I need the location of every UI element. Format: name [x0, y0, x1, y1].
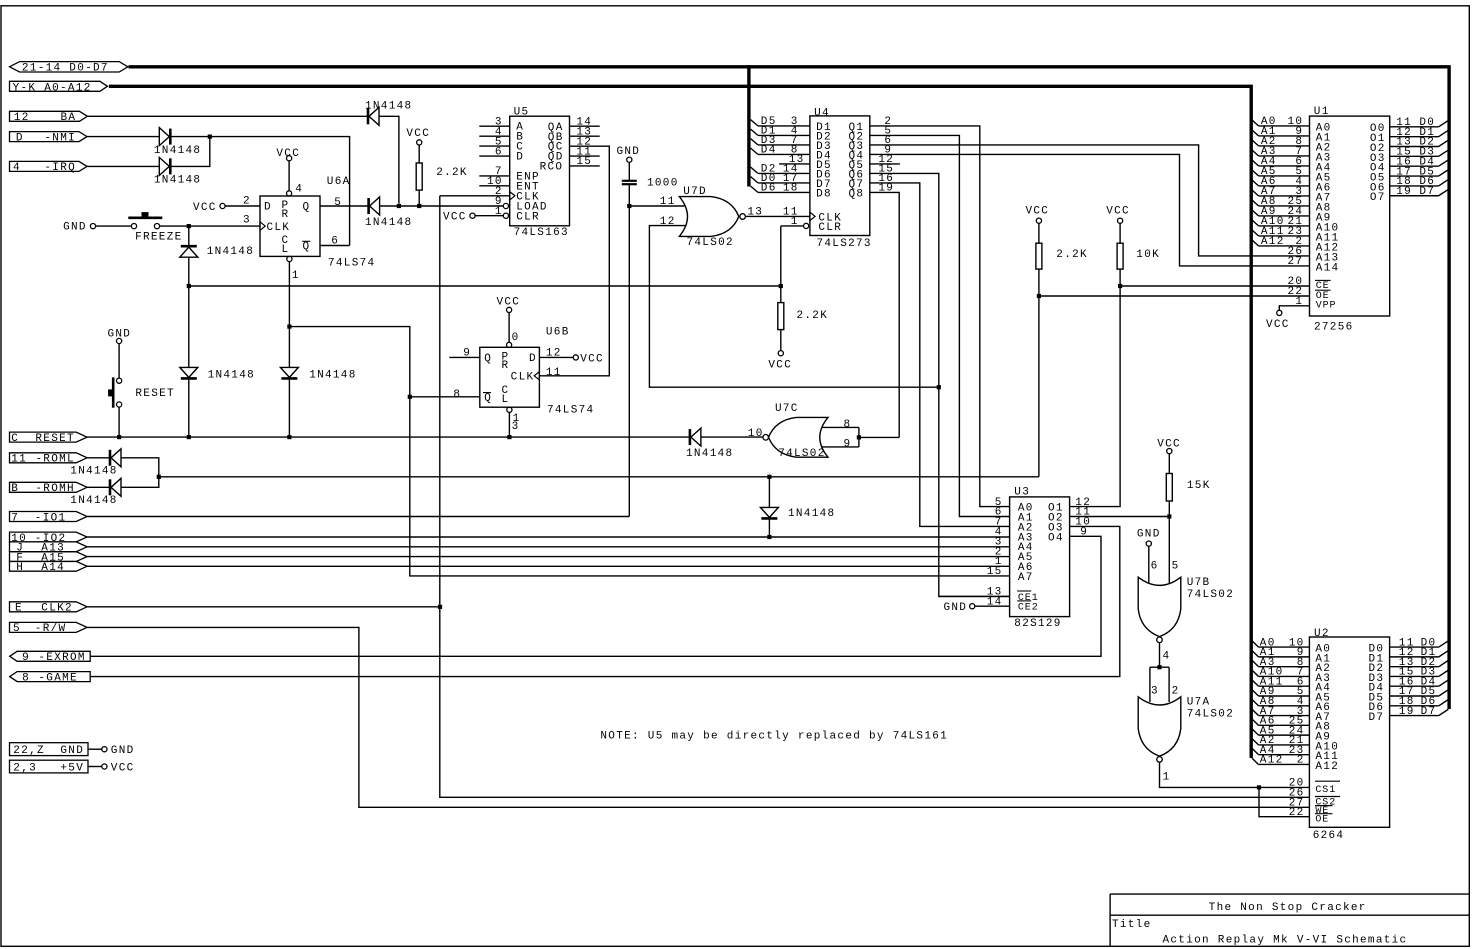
- svg-text:U7C: U7C: [775, 403, 799, 415]
- pin 5 stub (U5): [479, 145, 509, 147]
- wire: U7C inputs to Q8 vertical: [859, 436, 899, 438]
- wire: U4 CLR to pull-up: [780, 226, 782, 303]
- wire: -IRQ diode up to NMI junction: [170, 137, 210, 167]
- U2 inside labels: [1315, 644, 1384, 826]
- svg-text:A12: A12: [1261, 236, 1285, 248]
- wire: D bus branch to U4: [747, 65, 750, 186]
- diode D1 1N4148 (BA): [365, 101, 412, 126]
- connector J A13: [10, 542, 88, 555]
- svg-text:8: 8: [22, 672, 30, 684]
- wire: -ROMH diode to OR junction: [122, 477, 159, 488]
- svg-text:1: 1: [1163, 772, 1171, 784]
- U4 inside labels: [816, 122, 864, 234]
- pin 16 output D4 (U1): [1390, 156, 1449, 168]
- wire: -IRQ to diode: [87, 165, 159, 167]
- diode D3 1N4148 (-IRQ): [154, 157, 201, 186]
- ground terminal (U7B input 6): [1137, 529, 1161, 547]
- svg-text:10: 10: [748, 428, 764, 440]
- nor-gate U7D 74LS02: [660, 186, 763, 249]
- svg-text:74LS02: 74LS02: [778, 448, 825, 460]
- node: IO2 diode top junction: [767, 475, 771, 479]
- pin 3 stub (U5): [479, 125, 509, 127]
- ground terminal (RESET): [108, 328, 132, 343]
- wire: A15 to U3 A5: [87, 556, 1010, 558]
- node: U7C inputs junction: [857, 435, 861, 439]
- svg-text:CLK: CLK: [511, 371, 535, 383]
- pin 15 output D3 (U1): [1390, 147, 1449, 159]
- wire: diode to U7C output: [701, 436, 763, 438]
- svg-text:R: R: [282, 209, 290, 221]
- connector 9 -EXROM: [10, 651, 91, 664]
- connector H A14: [10, 561, 88, 574]
- switch FREEZE: [96, 212, 183, 243]
- diode D6 1N4148 (Q to LOAD): [365, 197, 412, 229]
- wire: BA diode to LOAD net: [380, 116, 399, 203]
- svg-text:22,Z: 22,Z: [13, 745, 45, 757]
- diode D11 1N4148 (to -IO2): [760, 507, 835, 520]
- wire: VCC to U6B pin 10: [508, 313, 510, 343]
- pin 9 wire (U4 Q4 to U1 A14): [870, 145, 1310, 266]
- pin 25 tap A8 (U1): [1252, 196, 1310, 208]
- diode D2 1N4148 (-NMI): [154, 128, 201, 157]
- svg-text:19: 19: [1396, 186, 1412, 198]
- svg-text:R: R: [502, 360, 510, 372]
- svg-text:GND: GND: [617, 146, 641, 158]
- counter U5 74LS163: [503, 107, 569, 239]
- svg-text:A14: A14: [1316, 262, 1340, 274]
- svg-text:11: 11: [660, 196, 676, 208]
- pin 6 tap A11 (U2): [1252, 676, 1309, 688]
- svg-text:5: 5: [1172, 560, 1180, 572]
- pin 18 output D6 (U1): [1390, 176, 1449, 188]
- node: Q6 junction: [937, 385, 941, 389]
- wire: U7A output to U2 CS1: [1160, 762, 1310, 787]
- pin 13 output D2 (U1): [1390, 137, 1449, 149]
- svg-text:1N4148: 1N4148: [309, 370, 356, 382]
- svg-text:1N4148: 1N4148: [365, 101, 412, 113]
- pin 4 tap A8 (U2): [1252, 696, 1309, 708]
- wire: RESET line: [87, 436, 689, 438]
- wire: -EXROM from U3 O4: [90, 536, 1101, 656]
- svg-text:-IO1: -IO1: [35, 512, 67, 524]
- svg-text:RESET: RESET: [35, 433, 75, 445]
- pin 14 wire (U3 CE2 to GND): [944, 602, 1010, 614]
- svg-text:6: 6: [495, 146, 503, 158]
- connector C RESET: [10, 432, 88, 445]
- pin 7 stub (U5): [479, 175, 509, 177]
- node: OE junction: [1037, 294, 1041, 298]
- pin 13 stub (U5): [570, 135, 600, 137]
- svg-text:8: 8: [844, 419, 852, 431]
- svg-text:2.2K: 2.2K: [436, 167, 468, 179]
- svg-text:9: 9: [463, 348, 471, 360]
- svg-text:Action Replay Mk V-VI Schemati: Action Replay Mk V-VI Schematic: [1163, 935, 1408, 947]
- svg-text:-ROMH: -ROMH: [35, 483, 75, 495]
- node: U7A input junction: [1157, 665, 1161, 669]
- svg-text:6: 6: [1151, 560, 1159, 572]
- wire: CLR net to U3 A7: [289, 327, 1009, 576]
- svg-text:B: B: [11, 483, 19, 495]
- pin 11 stub (U5): [570, 155, 600, 157]
- pin 2 wire (U5 CLK from CLK2): [440, 195, 510, 197]
- pin 17 output D5 (U1): [1390, 166, 1449, 178]
- node: reset junctions: [117, 435, 121, 439]
- svg-text:D6: D6: [761, 183, 777, 195]
- pin 10 tap A0 (U2): [1252, 637, 1309, 649]
- wire: A13 to U3 A4: [87, 546, 1010, 548]
- svg-text:+5V: +5V: [60, 762, 84, 774]
- pin 23 tap A4 (U2): [1252, 745, 1309, 757]
- wire: U6A CLR down: [288, 262, 290, 327]
- op-amp U6B 74LS74 flip-flop: [480, 327, 595, 417]
- wire: -ROML to diode: [87, 457, 109, 459]
- svg-text:9: 9: [844, 438, 852, 450]
- svg-text:12: 12: [14, 112, 30, 124]
- resistor R2 2.2K (CLR pull-up): [768, 303, 828, 372]
- wire: -ROMH to diode: [87, 486, 109, 488]
- svg-text:RCO: RCO: [540, 162, 564, 174]
- pin 4 tap A6 (U1): [1252, 176, 1310, 188]
- svg-text:1N4148: 1N4148: [70, 465, 117, 477]
- svg-text:D7: D7: [1419, 186, 1435, 198]
- wire: VCC to U6A pin4: [288, 161, 290, 191]
- pin 24 tap A9 (U1): [1252, 206, 1310, 218]
- diode D4 1N4148 (freeze pulse): [180, 246, 254, 258]
- wire: -ROML diode to OR junction: [122, 458, 159, 477]
- pin 12 output D1 (U1): [1390, 127, 1449, 139]
- wire: diode to RESET line: [288, 378, 290, 437]
- pin 2 tap A12 (U1): [1252, 236, 1310, 248]
- svg-text:15K: 15K: [1187, 480, 1211, 492]
- pin 7 tap D3 (U4): [751, 135, 810, 147]
- pin 10 stub (U5): [479, 185, 509, 187]
- wire: U6A Q to diode: [320, 205, 368, 207]
- wire: C1 to -IO1 vertical: [628, 185, 630, 516]
- wire: A bus thick: [109, 86, 1251, 758]
- connector E CLK2: [10, 602, 88, 615]
- svg-text:9: 9: [22, 652, 30, 664]
- wire: U6B Q pin 8: [410, 396, 480, 398]
- wire: down to reset diode: [188, 286, 190, 367]
- wire: O2 to U7B input 5: [1168, 517, 1170, 584]
- wire: -NMI to diode: [87, 136, 159, 138]
- svg-text:21-14 D0-D7: 21-14 D0-D7: [22, 62, 109, 74]
- diode D10 1N4148 (-ROMH): [70, 478, 121, 507]
- pin 12 wire (U6B D to VCC): [539, 348, 604, 366]
- svg-text:O4: O4: [1048, 532, 1064, 544]
- pin 12 stub (U4 Q5): [870, 154, 900, 166]
- svg-text:A7: A7: [1018, 572, 1034, 584]
- pin 7 tap A10 (U2): [1252, 667, 1309, 679]
- pin 10 tap A0 (U1): [1252, 116, 1310, 128]
- node: NMI/IRQ junction: [208, 135, 212, 139]
- pin 2 tap A12 (U2): [1252, 755, 1309, 767]
- svg-text:3: 3: [1151, 686, 1159, 698]
- svg-text:8: 8: [453, 389, 461, 401]
- title block: [1110, 894, 1469, 947]
- svg-text:6264: 6264: [1313, 830, 1345, 842]
- connector Y-K A0-A12 (address bus): [10, 81, 108, 94]
- svg-text:Q: Q: [484, 353, 492, 365]
- pin 21 tap A2 (U2): [1252, 735, 1309, 747]
- svg-text:GND: GND: [1137, 529, 1161, 541]
- svg-text:D4: D4: [761, 145, 777, 157]
- pin 19 output D7 (U1): [1390, 186, 1449, 198]
- svg-text:VCC: VCC: [1106, 206, 1130, 218]
- svg-text:D: D: [516, 152, 524, 164]
- svg-text:74LS163: 74LS163: [514, 227, 569, 239]
- svg-text:1N4148: 1N4148: [154, 175, 201, 187]
- svg-text:5: 5: [334, 197, 342, 209]
- pin 12 wire (U3 O1 to pull-up and U1 CE): [1070, 269, 1121, 507]
- svg-text:BA: BA: [61, 112, 77, 124]
- wire: junction down to diode: [188, 226, 190, 246]
- svg-text:D: D: [16, 132, 24, 144]
- svg-text:The Non Stop Cracker: The Non Stop Cracker: [1209, 902, 1367, 914]
- U1 inside labels: [1315, 122, 1386, 311]
- pin 15 output D3 (U2): [1390, 667, 1449, 679]
- wire: U7C input 8: [822, 426, 859, 428]
- pin 14 stub (U5): [570, 125, 600, 127]
- pin 6 stub (U5): [479, 155, 509, 157]
- connector D -NMI: [10, 132, 88, 145]
- wire: -NMI diode to U6A Q̅ vertical: [170, 137, 349, 246]
- svg-text:0: 0: [512, 332, 520, 344]
- svg-text:1: 1: [495, 206, 503, 218]
- svg-text:1N4148: 1N4148: [208, 370, 255, 382]
- svg-text:VCC: VCC: [497, 296, 521, 308]
- svg-text:NOTE: U5 may be directly repla: NOTE: U5 may be directly replaced by 74L…: [600, 730, 948, 742]
- svg-text:U7D: U7D: [683, 186, 707, 198]
- svg-text:12: 12: [546, 348, 562, 360]
- node: BA junction on LOAD net: [397, 204, 401, 208]
- svg-text:2: 2: [1172, 686, 1180, 698]
- svg-text:2: 2: [1297, 755, 1305, 767]
- svg-text:2.2K: 2.2K: [1056, 249, 1088, 261]
- svg-text:GND: GND: [944, 602, 968, 614]
- pin 3 tap D5 (U4): [751, 116, 810, 128]
- svg-text:D7: D7: [1421, 706, 1437, 718]
- svg-text:Title: Title: [1112, 919, 1152, 931]
- svg-text:VCC: VCC: [1026, 206, 1050, 218]
- node: net-286 left junction: [187, 284, 191, 288]
- pin 6 tap A4 (U1): [1252, 156, 1310, 168]
- diode D7 1N4148 (reset to CLR net): [280, 367, 356, 381]
- svg-text:4: 4: [13, 162, 21, 174]
- node: CLR net junction: [287, 325, 291, 329]
- svg-text:22: 22: [1289, 807, 1305, 819]
- wire: U7A input bracket: [1150, 667, 1169, 702]
- svg-text:D8: D8: [816, 188, 832, 200]
- svg-text:A12: A12: [1315, 761, 1339, 773]
- svg-text:FREEZE: FREEZE: [135, 231, 182, 243]
- pin 14 tap D2 (U4): [751, 164, 810, 176]
- svg-text:11: 11: [11, 454, 27, 466]
- wire: to U1 OE: [1039, 295, 1310, 297]
- svg-text:GND: GND: [111, 745, 135, 757]
- svg-text:CE2: CE2: [1018, 603, 1039, 614]
- svg-text:OE: OE: [1315, 814, 1329, 825]
- wire: U7C input bracket: [858, 427, 860, 447]
- pin 1 (U5 CLR) to VCC: [443, 206, 503, 224]
- svg-text:U7B: U7B: [1187, 577, 1211, 589]
- svg-text:1: 1: [1295, 296, 1303, 308]
- ground terminal (C1): [617, 146, 641, 162]
- pin 17 tap D0 (U4): [751, 173, 810, 185]
- pin 7 tap A3 (U1): [1252, 146, 1310, 158]
- pin 6 wire (U4 Q3 to U1 A13): [870, 135, 1310, 256]
- node: CLK2 junction: [438, 605, 442, 609]
- svg-text:-NMI: -NMI: [44, 132, 76, 144]
- svg-text:74LS74: 74LS74: [547, 404, 594, 416]
- svg-text:1: 1: [292, 270, 300, 282]
- pin 3 tap A7 (U2): [1252, 706, 1309, 718]
- svg-text:74LS02: 74LS02: [1187, 708, 1234, 720]
- ram U2 6264: [1309, 628, 1389, 842]
- nor-gate U7C 74LS02: [748, 403, 852, 460]
- svg-text:VCC: VCC: [768, 359, 792, 371]
- eprom U1 27256: [1310, 106, 1390, 334]
- svg-text:VCC: VCC: [1266, 319, 1290, 331]
- wire: to U1 CE: [1120, 285, 1309, 287]
- wire: U5 CLK vertical to CLK2 and U2 CS2: [440, 196, 1310, 798]
- svg-text:2,3: 2,3: [13, 762, 37, 774]
- U3 right pin numbers: [1075, 497, 1091, 539]
- svg-text:74LS273: 74LS273: [817, 238, 872, 250]
- wire: RESET button to RESET line: [118, 407, 120, 437]
- connector 8 -GAME: [10, 672, 91, 685]
- svg-text:6: 6: [331, 235, 339, 247]
- wire: FREEZE to U6A CLK: [160, 225, 260, 227]
- wire: CLK2 to U5 CLK vertical: [87, 606, 440, 608]
- svg-text:CLR: CLR: [516, 211, 540, 223]
- wire: VCC to U6A D: [225, 205, 260, 207]
- resistor R1 2.2K (LOAD pull-up): [406, 128, 467, 206]
- wire: D bus thick: [129, 67, 1450, 709]
- svg-text:15: 15: [576, 156, 592, 168]
- svg-text:A12: A12: [1260, 755, 1284, 767]
- svg-text:U6B: U6B: [546, 327, 570, 339]
- svg-text:-EXROM: -EXROM: [38, 652, 85, 664]
- svg-text:4: 4: [1163, 651, 1171, 663]
- svg-text:19: 19: [878, 183, 894, 195]
- pin 8 tap D4 (U4): [751, 145, 810, 157]
- wire: diode to RESET line: [188, 378, 190, 437]
- pin 18 tap D6 (U4): [751, 183, 810, 195]
- pin 25 tap A6 (U2): [1252, 716, 1309, 728]
- pin 12 wire (U5 QC to U6B CLK): [539, 136, 609, 375]
- pin 24 tap A5 (U2): [1252, 725, 1309, 737]
- svg-text:74LS02: 74LS02: [1187, 589, 1234, 601]
- pin 11 output D0 (U2): [1390, 637, 1449, 649]
- svg-text:U4: U4: [814, 107, 830, 119]
- pin 16 wire (U4 Q7 to U3 A2): [870, 173, 1010, 526]
- svg-text:U6A: U6A: [327, 176, 351, 188]
- wire: -IO1 to C1 vertical: [87, 516, 629, 518]
- wire: diode down to net 286: [188, 257, 190, 286]
- svg-text:CLR: CLR: [818, 222, 842, 234]
- U3 inside labels: [1017, 503, 1064, 614]
- svg-text:2.2K: 2.2K: [797, 310, 829, 322]
- svg-text:C: C: [11, 433, 19, 445]
- pin 18 output D6 (U2): [1390, 696, 1449, 708]
- node: ROM OR junction: [157, 475, 161, 479]
- svg-text:12: 12: [660, 216, 676, 228]
- vcc terminal (U6A preset): [276, 148, 300, 161]
- svg-text:VCC: VCC: [193, 202, 217, 214]
- node: pull-up junction on LOAD net: [417, 204, 421, 208]
- pin 1 wire (U1 VPP to VCC): [1266, 296, 1310, 331]
- node: U7D input junction: [627, 204, 631, 208]
- node: net-286 right junction: [779, 284, 783, 288]
- wire: U7D pin 11 input: [629, 205, 684, 207]
- svg-text:Y-K A0-A12: Y-K A0-A12: [13, 83, 92, 95]
- wire: GND to U7B input 6: [1148, 546, 1150, 583]
- svg-text:1N4148: 1N4148: [686, 448, 733, 460]
- pin 1 wire (U4 CLR): [781, 216, 804, 228]
- svg-text:19: 19: [1399, 706, 1415, 718]
- connector 12 BA: [10, 111, 88, 124]
- wire: U7C input 9: [822, 446, 859, 448]
- svg-text:Q: Q: [303, 241, 311, 253]
- svg-text:D7: D7: [1369, 712, 1385, 724]
- pin 13 output D2 (U2): [1390, 657, 1449, 669]
- connector 5 -R/W: [10, 622, 88, 635]
- pin 19 output D7 (U2): [1390, 706, 1449, 718]
- resistor R4 15K (O2 pull-up): [1157, 439, 1210, 517]
- op-amp U6A 74LS74 flip-flop: [260, 176, 375, 269]
- pin 15 stub (U5): [570, 165, 600, 167]
- diode D5 1N4148 (reset to freeze net): [180, 367, 255, 381]
- svg-text:VCC: VCC: [443, 211, 467, 223]
- svg-text:7: 7: [11, 512, 19, 524]
- svg-text:L: L: [282, 244, 290, 256]
- svg-text:1N4148: 1N4148: [788, 508, 835, 520]
- pin 4 stub (U5): [479, 135, 509, 137]
- svg-text:-GAME: -GAME: [38, 672, 78, 684]
- wire: -GAME from U3 O3: [90, 526, 1120, 676]
- wire: -IO2 to U3 A3: [87, 536, 1010, 538]
- svg-text:3: 3: [243, 214, 251, 226]
- pin 15 wire (U4 Q6 to U3 CE1): [870, 164, 1010, 597]
- svg-text:1N4148: 1N4148: [365, 217, 412, 229]
- wire: A14 to U3 A6: [87, 565, 1010, 567]
- pin 9 tap A1 (U1): [1252, 126, 1310, 138]
- svg-text:A14: A14: [41, 562, 65, 574]
- resistor R5 2.2K (OE pull-up): [1026, 206, 1088, 477]
- capacitor C1 1000: [622, 162, 679, 189]
- svg-text:5: 5: [13, 623, 21, 635]
- pin 5 tap A5 (U1): [1252, 166, 1310, 178]
- ground terminal (FREEZE): [63, 222, 96, 234]
- connector F A15: [10, 552, 88, 565]
- pin 8 tap A2 (U1): [1252, 136, 1310, 148]
- svg-text:74LS02: 74LS02: [687, 237, 734, 249]
- wire: CS1 to OE tie: [1259, 787, 1309, 816]
- pin 13 wire (U6B CLR): [509, 412, 520, 437]
- wire: U7D out to U4 CLK: [745, 215, 810, 217]
- pin 3 tap A7 (U1): [1252, 186, 1310, 198]
- svg-text:1000: 1000: [647, 178, 679, 190]
- svg-text:L: L: [502, 394, 510, 406]
- svg-text:E: E: [15, 603, 23, 615]
- pin 5 tap A9 (U2): [1252, 686, 1309, 698]
- svg-text:Q: Q: [303, 202, 311, 214]
- wire: net 286 (to U4 CLR pull-up): [189, 285, 781, 287]
- pin 11 wire (U3 O2 to 15K and U7B): [1070, 516, 1170, 518]
- svg-text:11: 11: [546, 367, 562, 379]
- node: -IO2 junction: [767, 535, 771, 539]
